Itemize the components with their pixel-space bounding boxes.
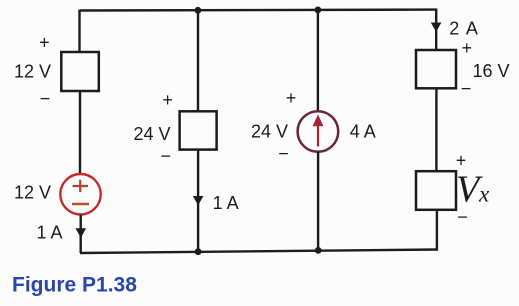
svg-text:x: x	[478, 182, 490, 207]
node top branch3	[315, 6, 322, 13]
svg-text:12 V: 12 V	[14, 183, 51, 203]
wire branch1 top	[78, 10, 80, 54]
wire branch4 bottom	[436, 210, 438, 251]
current source 4 A circle	[298, 111, 339, 152]
wire top rail	[80, 8, 437, 11]
voltage source 12 V circle	[60, 174, 100, 214]
node bottom branch2	[195, 248, 202, 255]
svg-text:−: −	[40, 89, 51, 109]
svg-text:−: −	[461, 79, 472, 99]
wire branch4 middle	[435, 88, 437, 171]
element box 24 V	[180, 111, 217, 149]
svg-text:−: −	[160, 146, 171, 166]
node bottom branch3	[315, 247, 322, 254]
wire branch3 top	[317, 9, 319, 111]
svg-text:24 V: 24 V	[251, 121, 288, 141]
svg-text:+: +	[39, 33, 50, 53]
svg-text:12 V: 12 V	[14, 62, 51, 82]
svg-text:1 A: 1 A	[36, 223, 62, 243]
element box 12 V	[61, 52, 99, 91]
plus inside source	[73, 180, 89, 192]
svg-text:2 A: 2 A	[449, 18, 479, 38]
svg-text:−: −	[278, 144, 289, 164]
minus inside source	[72, 203, 89, 205]
svg-text:+: +	[461, 38, 472, 58]
arrow 2 A down branch4	[431, 23, 442, 32]
wire branch1 middle	[79, 91, 81, 174]
wire branch3 bottom	[317, 152, 319, 251]
arrow inside current source	[317, 125, 319, 147]
svg-text:24 V: 24 V	[133, 124, 170, 144]
svg-text:+: +	[286, 88, 297, 108]
svg-text:4 A: 4 A	[350, 121, 376, 141]
svg-text:16 V: 16 V	[473, 61, 510, 81]
svg-text:Figure P1.38: Figure P1.38	[12, 274, 137, 297]
element box 16 V	[416, 50, 456, 88]
svg-text:−: −	[457, 207, 468, 227]
arrow 1 A down branch2	[193, 196, 204, 205]
wire bottom rail	[80, 250, 438, 254]
wire branch4 top	[435, 9, 437, 51]
wire branch2 bottom	[197, 150, 199, 252]
wire branch2 top	[197, 10, 199, 112]
svg-text:1 A: 1 A	[213, 193, 239, 213]
svg-text:+: +	[456, 150, 467, 170]
svg-text:+: +	[162, 90, 173, 110]
arrow 1 A down branch1	[76, 228, 87, 237]
node top branch2	[195, 7, 202, 14]
element box Vx	[416, 171, 456, 210]
wire branch1 bottom	[79, 215, 81, 254]
